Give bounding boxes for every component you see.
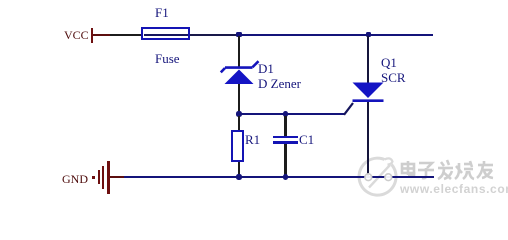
junction mid node zener/R1: [236, 111, 242, 116]
bottom rail: [124, 176, 434, 178]
GND symbol bar 3: [107, 161, 110, 194]
wire VCC to fuse (maroon part): [93, 34, 110, 36]
fuse F1 inner line: [144, 34, 188, 36]
junction top rail / zener: [236, 32, 242, 37]
电: [402, 161, 414, 175]
junction bottom rail / R1: [236, 174, 242, 179]
watermark chinese characters (simplified strokes): [402, 160, 493, 179]
烧: [455, 161, 474, 179]
junction bottom rail / C1: [283, 174, 289, 179]
label Fuse: [155, 52, 180, 65]
VCC terminal bar: [91, 28, 93, 44]
cathode bar: [353, 99, 384, 102]
anode triangle pointing up: [225, 70, 254, 85]
capacitor C1 top plate: [273, 136, 298, 138]
zener diode D1: [215, 55, 270, 90]
子: [418, 163, 434, 178]
gate diagonal: [344, 103, 353, 115]
GND label: [62, 173, 88, 186]
label D Zener: [258, 77, 301, 90]
cathode bar with zener ticks: [221, 61, 259, 72]
wire SCR anode drop from top rail: [367, 36, 369, 83]
wire zener to mid node: [238, 84, 240, 114]
wire C1 drop from mid wire: [284, 116, 286, 136]
label R1: [245, 133, 260, 146]
友: [477, 161, 493, 178]
mid horizontal wire to SCR gate: [239, 113, 344, 115]
resistor R1 body: [231, 130, 244, 162]
anode triangle pointing down: [353, 83, 384, 99]
wire SCR cathode to bottom rail: [367, 102, 369, 176]
watermark logo eyes (over wires): [360, 168, 396, 186]
label SCR: [381, 71, 406, 84]
发: [438, 160, 453, 179]
wire R1 to bottom rail: [238, 162, 240, 176]
junction top rail / SCR: [366, 32, 372, 37]
watermark url text: [400, 182, 508, 196]
GND symbol bar 2: [102, 166, 104, 189]
wire top rail zener node to right end: [239, 34, 433, 36]
wire fuse to zener node: [190, 34, 239, 36]
GND symbol bar 1: [98, 170, 100, 184]
VCC label: [64, 29, 89, 42]
wire GND maroon segment: [110, 176, 124, 178]
wire VCC to fuse (black part): [110, 34, 141, 36]
label F1: [155, 6, 169, 19]
fuse F1 body: [141, 27, 190, 40]
label Q1: [381, 56, 397, 69]
wire mid node down to R1: [238, 116, 240, 130]
GND symbol dot: [92, 176, 95, 179]
wire zener anode drop from top rail: [238, 36, 240, 67]
junction mid node C1: [283, 111, 289, 116]
capacitor C1 bottom plate: [273, 141, 298, 144]
label D1: [258, 62, 274, 75]
label C1: [299, 133, 314, 146]
SCR Q1: [337, 78, 397, 118]
wire C1 to bottom rail: [284, 144, 286, 176]
